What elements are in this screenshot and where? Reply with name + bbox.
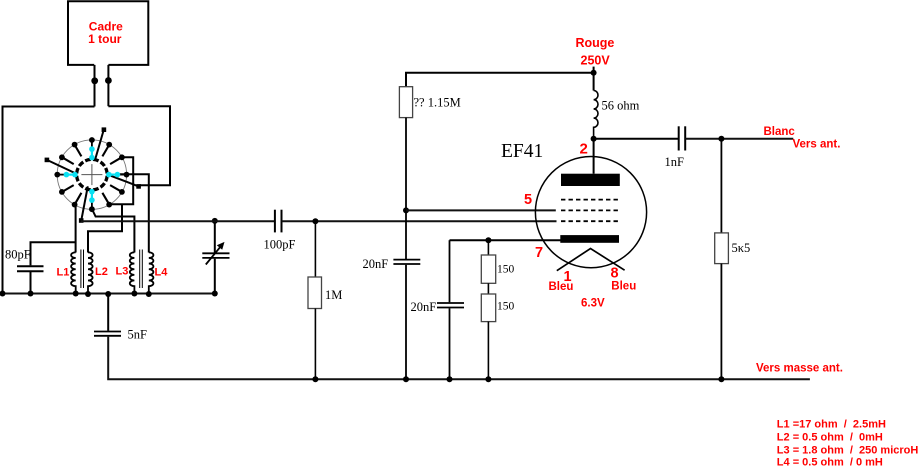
- resistor R 150 upper body: [481, 255, 495, 283]
- node bus dot 80pF: [28, 291, 34, 297]
- switch contact dot 9 o'clock: [54, 172, 60, 178]
- wire L2 tap from staircase: [88, 204, 122, 252]
- node bus dot L1: [73, 291, 79, 297]
- node 5k5 ground dot: [718, 376, 724, 382]
- tube V1 EF41 envelope circle: [535, 157, 646, 268]
- switch contact stub 2 o'clock: [110, 158, 120, 164]
- node bus dot L3: [131, 291, 137, 297]
- tube anode plate bar: [561, 174, 620, 186]
- node grid1 junction dot: [403, 207, 409, 213]
- switch S1 rotor dashed ring: [77, 159, 108, 190]
- svg-text:L3 = 1.8 ohm / 250 microH: L3 = 1.8 ohm / 250 microH: [777, 444, 919, 456]
- node 1M top junction dot: [312, 218, 318, 224]
- switch contact dot 12 o'clock: [89, 137, 95, 143]
- switch contact stub 4 o'clock: [110, 185, 120, 191]
- wire pin5 horizontal: [406, 209, 556, 211]
- switch S cyan contact pair: [89, 189, 95, 203]
- switch rotor wiper E to cadre wire with square terminal: [110, 175, 141, 188]
- switch contact dot 3 o'clock: [124, 172, 130, 178]
- node cadre left junction dot: [91, 77, 98, 84]
- switch contact dot 8 o'clock: [59, 189, 65, 195]
- switch contact dot 11 o'clock: [72, 142, 78, 148]
- wire 7 o'clock contact to L1 top: [75, 205, 77, 253]
- switch N cyan contact pair: [89, 146, 95, 160]
- switch rotor wiper N with square terminal: [95, 127, 106, 158]
- capacitor C 80pF plates: [17, 266, 44, 271]
- svg-text:L1: L1: [57, 267, 70, 279]
- switch W cyan contact pair: [64, 172, 78, 178]
- inductor 56 ohm choke: [594, 91, 598, 139]
- svg-text:1 tour: 1 tour: [88, 32, 122, 46]
- svg-text:Blanc: Blanc: [764, 126, 796, 138]
- node bus dot left edge: [0, 291, 6, 297]
- switch E contact black link: [117, 174, 125, 176]
- svg-text:150: 150: [497, 264, 515, 276]
- svg-text:L2: L2: [95, 266, 108, 278]
- svg-text:L3: L3: [116, 265, 129, 277]
- switch contact dot 6 o'clock: [89, 206, 95, 212]
- inductor L2: [88, 252, 93, 293]
- svg-text:Rouge: Rouge: [576, 36, 615, 50]
- node antenna junction dot: [718, 136, 724, 142]
- switch contact dot 7 o'clock: [72, 202, 78, 208]
- wire cadre left down left edge to coil bus: [3, 107, 95, 294]
- node 20nF-1 ground dot: [403, 376, 409, 382]
- svg-text:150: 150: [497, 301, 515, 313]
- resistor R 5k5 body: [715, 233, 729, 264]
- node bus dot L2: [85, 291, 91, 297]
- switch contact stub 8 o'clock: [64, 185, 74, 191]
- inductor L1: [71, 252, 76, 293]
- svg-text:250V: 250V: [581, 54, 611, 68]
- resistor R 1M body: [308, 277, 322, 309]
- variable capacitor CV arrow: [206, 242, 225, 265]
- transformer core L3-L4: [140, 250, 143, 289]
- svg-text:56 ohm: 56 ohm: [602, 98, 640, 112]
- switch contact dot 4 o'clock: [119, 189, 125, 195]
- svg-text:EF41: EF41: [501, 141, 543, 162]
- capacitor C 20nF-1 plates: [393, 260, 420, 264]
- wire E contact to L4 top: [117, 174, 148, 252]
- tube heater filament: [557, 249, 625, 271]
- svg-text:80pF: 80pF: [5, 247, 31, 261]
- node pin2 junction dot: [591, 136, 597, 142]
- resistor R 1M lead top: [314, 221, 316, 277]
- svg-text:Bleu: Bleu: [611, 280, 636, 292]
- wire pin2 anode lead: [593, 139, 595, 174]
- wire grid3 horizontal left of 100pF: [81, 220, 275, 222]
- svg-text:100pF: 100pF: [264, 238, 296, 252]
- resistor R 1.15M lead down to 20nF: [405, 118, 407, 259]
- svg-text:Bleu: Bleu: [549, 281, 574, 293]
- switch contact stub 11 o'clock: [76, 147, 82, 157]
- node CV bottom junction dot: [212, 291, 218, 297]
- node CV top junction dot: [212, 218, 218, 224]
- wire S contact to L3 top: [92, 210, 134, 253]
- wire coil bottom bus: [3, 293, 215, 295]
- wire cadre left lead: [94, 65, 96, 107]
- capacitor C 20nF-2 lead bottom: [449, 308, 451, 379]
- wire top rail 1.15M to 250V: [406, 73, 594, 87]
- variable capacitor CV top wire: [214, 221, 216, 253]
- wire 2 o'clock to 5 o'clock contact staircase: [111, 157, 134, 204]
- node bus dot 5nF: [105, 291, 111, 297]
- capacitor C 100pF plates: [275, 210, 282, 233]
- svg-text:L1 =17 ohm / 2.5mH: L1 =17 ohm / 2.5mH: [777, 419, 886, 431]
- svg-text:8: 8: [611, 265, 619, 281]
- capacitor C 80pF bottom wire: [30, 272, 32, 294]
- capacitor C 5nF bottom wire to ground bus: [108, 337, 810, 380]
- resistor R 1M lead bottom: [314, 309, 316, 380]
- svg-text:7: 7: [535, 245, 543, 261]
- wire between 150 resistors: [487, 283, 489, 294]
- switch E cyan contact pair: [106, 172, 120, 178]
- wire 250V supply lead: [593, 67, 595, 91]
- svg-text:L2 = 0.5 ohm / 0mH: L2 = 0.5 ohm / 0mH: [777, 431, 883, 443]
- resistor R ?? 1.15M body: [399, 87, 412, 118]
- tube cathode bar: [560, 235, 619, 243]
- node 1M ground dot: [312, 376, 318, 382]
- svg-text:L4 = 0.5 ohm / 0 mH: L4 = 0.5 ohm / 0 mH: [777, 457, 883, 469]
- switch S contact black link: [91, 200, 93, 208]
- resistor R 150 lower body: [481, 294, 495, 322]
- switch S1 outer circle: [57, 140, 126, 209]
- capacitor C 5nF plates: [94, 332, 121, 336]
- svg-text:1M: 1M: [325, 288, 342, 302]
- capacitor C 20nF-1 lead bottom: [405, 265, 407, 380]
- svg-text:?? 1.15M: ?? 1.15M: [414, 95, 461, 109]
- capacitor C 1nF plates: [679, 126, 686, 150]
- frame antenna "Cadre 1 tour" box: [68, 1, 148, 65]
- node cadre right junction dot: [105, 77, 112, 84]
- svg-text:Vers masse ant.: Vers masse ant.: [756, 363, 843, 375]
- switch W contact black link: [58, 174, 66, 176]
- switch N contact black link: [91, 141, 93, 149]
- tube grid dashed row 1: [561, 199, 618, 201]
- switch rotor wiper W with square terminal: [45, 158, 76, 174]
- variable capacitor CV plates: [202, 253, 229, 258]
- switch contact dot 5 o'clock: [106, 202, 112, 208]
- resistor R 5k5 lead bottom: [720, 264, 722, 380]
- switch contact dot 1 o'clock: [106, 142, 112, 148]
- switch contact dot 10 o'clock: [59, 154, 65, 160]
- svg-text:2: 2: [580, 141, 588, 158]
- svg-text:5: 5: [524, 192, 532, 208]
- svg-text:1nF: 1nF: [665, 155, 685, 169]
- svg-text:Vers ant.: Vers ant.: [793, 139, 841, 151]
- inductor L4: [149, 252, 154, 293]
- switch contact stub 10 o'clock: [64, 158, 74, 164]
- svg-text:20nF: 20nF: [411, 300, 437, 314]
- inductor L3: [130, 252, 135, 293]
- wire cadre right lead: [107, 65, 109, 106]
- wire cathode pin7 horizontal: [450, 239, 562, 241]
- transformer core L1-L2: [81, 250, 84, 289]
- resistor R 150 upper lead top: [487, 240, 489, 255]
- switch S1 center crosshair: [81, 164, 102, 185]
- wire 1nF to antenna output: [685, 138, 793, 140]
- capacitor C 5nF top wire: [107, 294, 109, 331]
- svg-text:5nF: 5nF: [128, 328, 148, 342]
- switch contact stub 5 o'clock: [102, 193, 108, 203]
- switch contact stub 1 o'clock: [102, 147, 108, 157]
- tube grid dashed row 3: [561, 220, 618, 222]
- switch contact dot 2 o'clock: [119, 154, 125, 160]
- svg-text:20nF: 20nF: [363, 257, 389, 271]
- capacitor C 20nF-2 lead top: [449, 240, 451, 302]
- node 150 chain top junction dot: [485, 237, 491, 243]
- node 250V top rail dot: [591, 70, 597, 76]
- tube grid dashed row 2: [561, 209, 618, 211]
- capacitor C 80pF top wire: [31, 242, 76, 265]
- svg-text:L4: L4: [155, 267, 169, 279]
- node 150 ground dot: [485, 376, 491, 382]
- node bus dot L4: [146, 291, 152, 297]
- variable capacitor CV bottom wire: [214, 259, 216, 294]
- wire grid3 horizontal right of 100pF: [282, 220, 557, 222]
- svg-text:5κ5: 5κ5: [732, 241, 751, 255]
- svg-text:6.3V: 6.3V: [581, 297, 605, 309]
- capacitor C 20nF-2 plates: [437, 303, 464, 308]
- wire cadre right to rotor E terminal: [108, 106, 170, 185]
- wire pin2 to 1nF: [594, 138, 679, 140]
- node 20nF-2 ground dot: [447, 376, 453, 382]
- switch rotor wiper S to grid wire with square terminal: [79, 186, 88, 223]
- resistor R 5k5 lead top: [720, 139, 722, 233]
- switch contact stub 7 o'clock: [76, 193, 82, 203]
- resistor R 150 lower lead bottom: [487, 322, 489, 380]
